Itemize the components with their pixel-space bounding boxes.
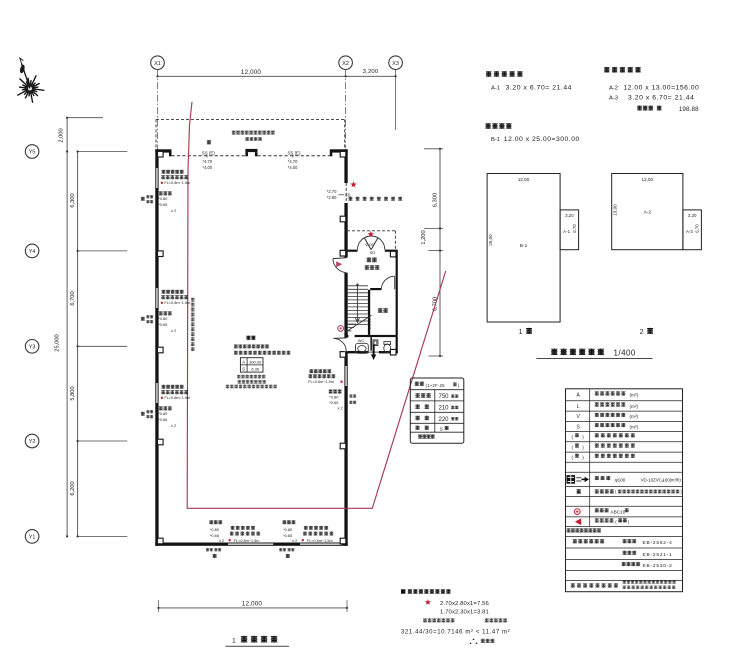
svg-text:3,200: 3,200 [363,69,379,75]
svg-text:ABC10: ABC10 [611,510,626,515]
svg-text:321.44/30=10.7146 m² < 11.4: 321.44/30=10.7146 m² < 11.47 m² [401,629,510,635]
svg-text:750: 750 [438,394,449,400]
svg-text:X3: X3 [392,61,399,67]
svg-text:6,70: 6,70 [572,224,577,233]
svg-text:6,70: 6,70 [695,224,700,233]
svg-text:*4.70: *4.70 [203,159,213,164]
svg-text:3.20 x 6.70= 21.44: 3.20 x 6.70= 21.44 [506,84,572,91]
svg-text:*2.00: *2.00 [365,242,375,247]
svg-text:6,300: 6,300 [433,193,439,207]
svg-text:SS: SS [345,192,351,197]
svg-text:100(m³/h): 100(m³/h) [663,477,682,482]
svg-text:): ) [582,445,584,450]
svg-text:(: ( [615,520,617,525]
svg-text:*0.80: *0.80 [283,527,293,532]
svg-text:Y5: Y5 [29,150,36,156]
svg-text:*0.65: *0.65 [158,417,167,422]
svg-text:25,00: 25,00 [488,234,493,246]
svg-text:*2.70: *2.70 [327,189,337,194]
svg-text:FL=0.8m~1.5m: FL=0.8m~1.5m [164,396,190,400]
svg-text:3,20: 3,20 [565,213,574,218]
svg-text:*0.80: *0.80 [158,411,168,416]
svg-text:12,00: 12,00 [518,177,530,182]
svg-text:): ) [582,435,584,440]
svg-text:6.36: 6.36 [251,367,259,372]
svg-text:x 2: x 2 [171,423,176,428]
svg-text:1,200: 1,200 [421,230,427,244]
svg-text:Y1: Y1 [29,535,36,541]
svg-text:25,000: 25,000 [55,334,61,351]
svg-text:A-3: A-3 [686,229,693,234]
svg-text:(m²): (m²) [630,404,639,409]
svg-text:12.00 x 13.00=156.00: 12.00 x 13.00=156.00 [623,84,699,91]
svg-text:A-1: A-1 [563,229,570,234]
svg-text:*2.80: *2.80 [327,195,337,200]
svg-text:12.00 x 25.00=300.00: 12.00 x 25.00=300.00 [504,136,580,143]
svg-text:EB-2562-4: EB-2562-4 [643,540,673,546]
svg-text:12,00: 12,00 [642,177,654,182]
svg-text:6,300: 6,300 [70,193,76,207]
svg-text:Y2: Y2 [29,439,36,445]
svg-text:): ) [582,455,584,460]
svg-text:S: S [577,424,581,430]
svg-text:Y3: Y3 [29,345,36,351]
svg-text:S: S [440,426,443,432]
svg-text:(: ( [615,489,617,494]
svg-text:1.70x2.30x1=3.81: 1.70x2.30x1=3.81 [440,609,489,615]
svg-text:x 2: x 2 [292,538,297,543]
svg-text:2: 2 [640,329,644,336]
svg-text:WC: WC [358,339,365,343]
svg-text:*4.00: *4.00 [288,165,298,170]
svg-text:SS (E): SS (E) [288,150,301,155]
svg-text:FL=0.6m~1.5m: FL=0.6m~1.5m [308,380,334,384]
svg-text:3,20: 3,20 [688,213,697,218]
svg-text:1/400: 1/400 [614,348,636,357]
svg-text:12,000: 12,000 [242,600,262,607]
svg-text:198.88: 198.88 [679,106,699,113]
svg-text:(: ( [572,445,574,450]
svg-text:L: L [577,404,580,410]
svg-text:x 2: x 2 [338,405,343,410]
svg-text:A: A [242,359,245,364]
svg-text:(m²): (m²) [630,414,639,419]
svg-text:*0.80: *0.80 [329,394,339,399]
svg-text:A-1: A-1 [491,85,500,91]
svg-text:1: 1 [519,329,523,336]
svg-text:A: A [577,393,581,399]
svg-text:(: ( [572,455,574,460]
svg-text:*0.65: *0.65 [283,533,292,538]
svg-text:(m²): (m²) [630,424,639,429]
svg-text:6,200: 6,200 [70,481,76,495]
svg-text:S: S [242,367,245,372]
svg-text:*4.70: *4.70 [288,159,298,164]
svg-text:x 2: x 2 [171,328,176,333]
svg-text:220: 220 [438,417,449,423]
svg-text:2.70x2.80x1=7.56: 2.70x2.80x1=7.56 [440,601,490,607]
svg-text:(m²): (m²) [630,393,639,398]
svg-text:EB-2521-1: EB-2521-1 [643,552,673,558]
svg-text:*0.65: *0.65 [158,202,167,207]
svg-text:5,800: 5,800 [70,386,76,400]
svg-text:*0.80: *0.80 [158,196,168,201]
svg-text:12,000: 12,000 [241,69,261,76]
svg-text:x 2: x 2 [171,208,176,213]
svg-text:SD: SD [370,250,376,255]
svg-text:13,00: 13,00 [612,204,617,216]
svg-text:FL=0.8m~1.5m: FL=0.8m~1.5m [234,539,260,543]
svg-text:EB-2530-2: EB-2530-2 [643,563,673,569]
svg-text:SS (E): SS (E) [202,150,215,155]
svg-text:2,000: 2,000 [59,128,65,142]
svg-text:3.20 x 6.70= 21.44: 3.20 x 6.70= 21.44 [628,95,694,102]
svg-text:φ100: φ100 [615,477,626,482]
svg-text:(1~2F·25: (1~2F·25 [426,383,446,388]
svg-text:): ) [458,383,460,388]
svg-text:*0.80: *0.80 [158,316,168,321]
svg-text:X2: X2 [342,61,349,67]
svg-text:*0.80: *0.80 [210,527,220,532]
svg-text:*0.65: *0.65 [158,322,167,327]
svg-text:(: ( [572,435,574,440]
svg-text:VD-10ZVC₃: VD-10ZVC₃ [641,477,664,482]
svg-text:X1: X1 [154,61,161,67]
svg-text:FL=0.8m~1.5m: FL=0.8m~1.5m [164,301,190,305]
svg-text:*0.65: *0.65 [329,400,338,405]
svg-text:A-2: A-2 [644,209,652,215]
svg-text:210: 210 [438,406,449,412]
svg-text:FL=0.8m~1.5m: FL=0.8m~1.5m [164,181,190,185]
svg-text:300.00: 300.00 [249,359,262,364]
svg-text:A-3: A-3 [609,96,618,102]
svg-text:A-2: A-2 [609,85,618,91]
svg-text:1: 1 [232,637,236,644]
svg-text:V: V [577,414,581,420]
svg-text:*0.65: *0.65 [210,533,219,538]
svg-text:x 2: x 2 [219,538,224,543]
svg-text:): ) [628,520,630,525]
svg-text:Y4: Y4 [29,249,36,255]
svg-text:B-1: B-1 [491,137,500,143]
svg-text:FL=0.6m~1.5m: FL=0.6m~1.5m [307,539,333,543]
svg-text:*4.00: *4.00 [203,165,213,170]
svg-text:6,700: 6,700 [70,291,76,305]
svg-text:B-1: B-1 [520,243,528,249]
